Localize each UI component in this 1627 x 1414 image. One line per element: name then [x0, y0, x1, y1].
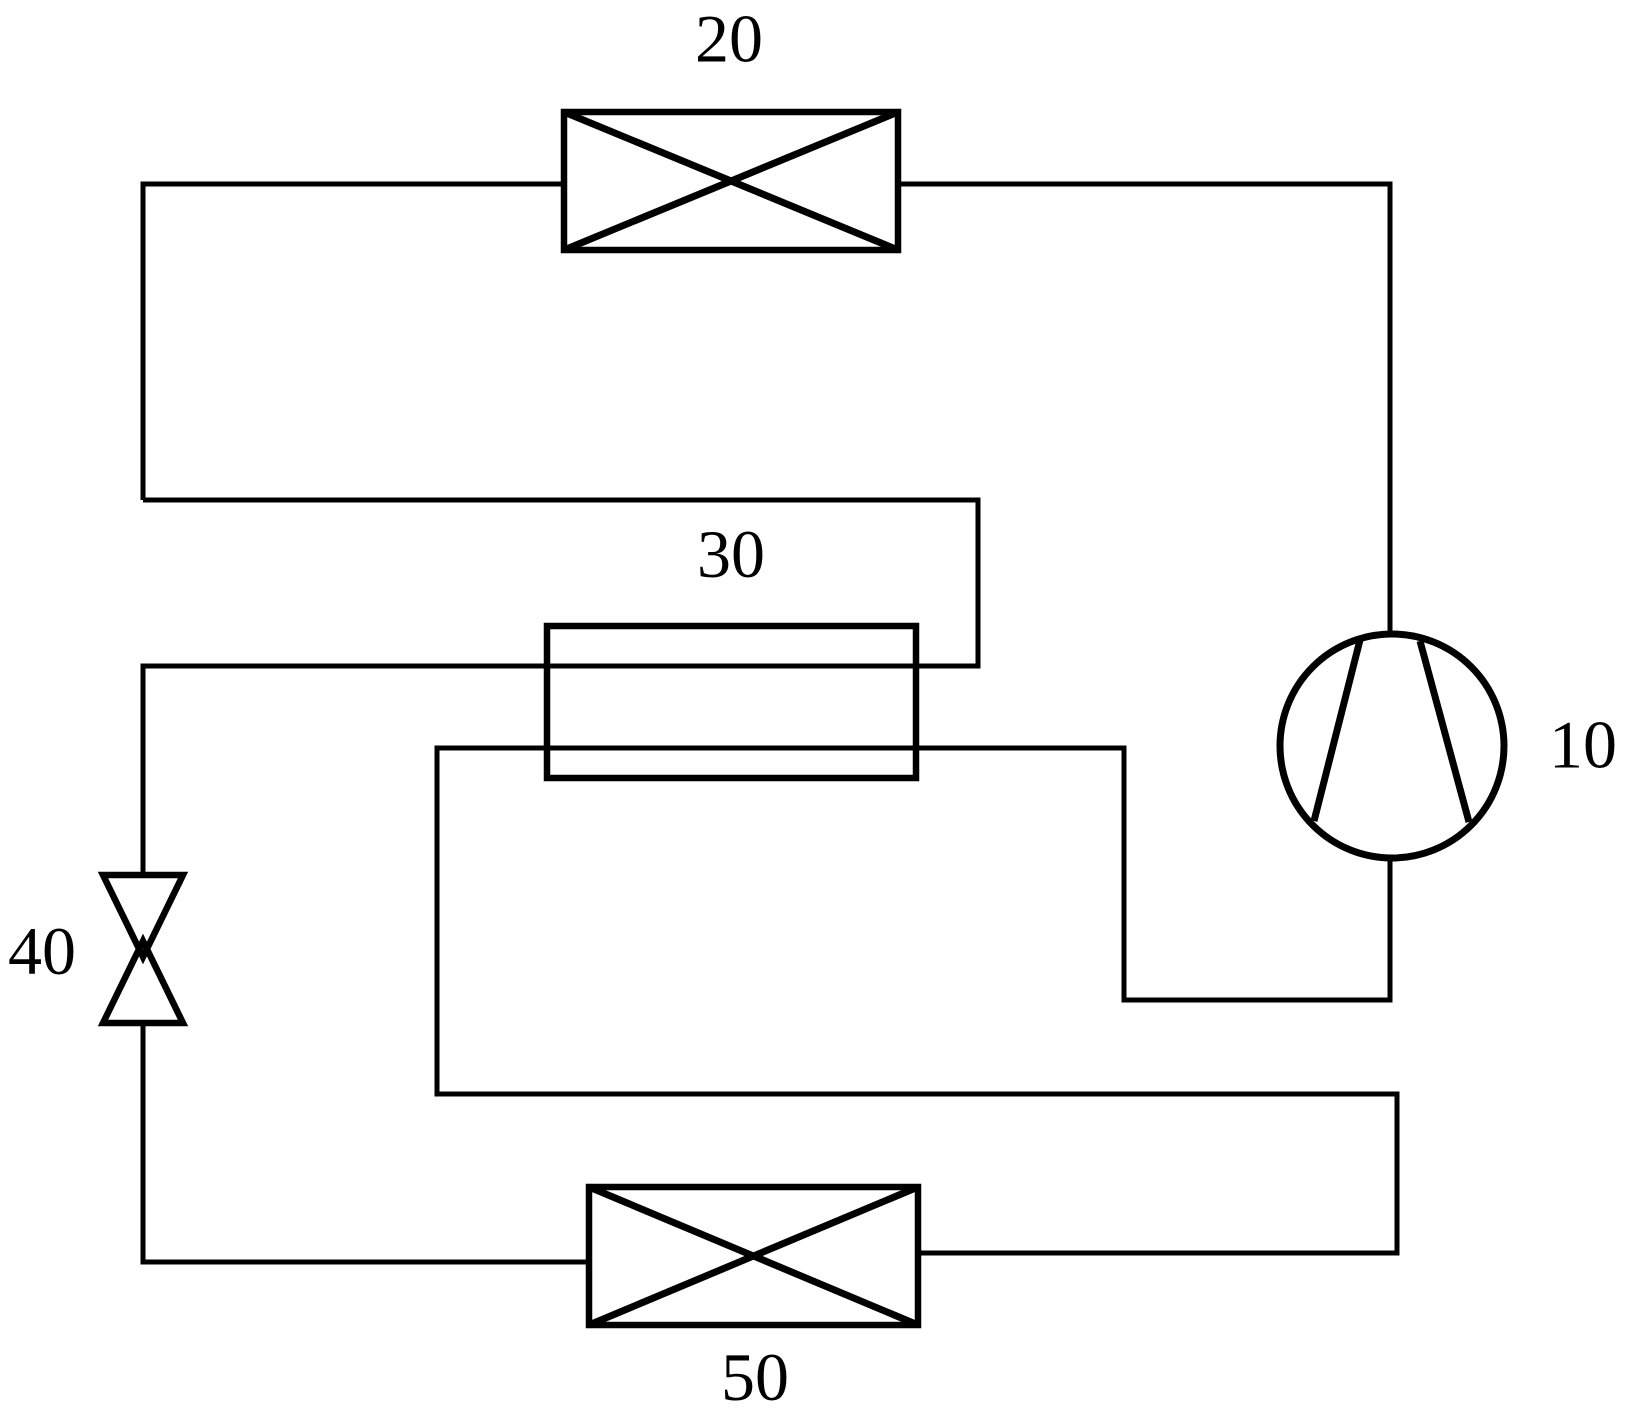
svg-text:40: 40 [8, 913, 76, 989]
svg-text:10: 10 [1549, 707, 1617, 783]
svg-text:50: 50 [721, 1339, 789, 1414]
svg-text:20: 20 [695, 1, 763, 77]
svg-text:30: 30 [697, 516, 765, 592]
